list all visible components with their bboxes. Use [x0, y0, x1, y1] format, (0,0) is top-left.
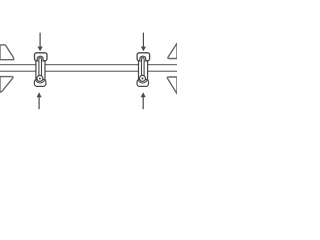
node TR: top-right wedge: [168, 43, 177, 58]
foot: [34, 79, 46, 86]
clip right assembly: [137, 53, 150, 87]
circle ring: [140, 75, 146, 81]
pin: [142, 58, 145, 76]
node BL: bottom-left wedge: [0, 77, 13, 93]
arrow top-left: [38, 33, 43, 52]
foot inner arc: [138, 80, 147, 83]
arrow bottom-left: [37, 92, 42, 109]
clip left assembly: [34, 53, 47, 87]
arrow bottom-right: [141, 92, 146, 109]
circle ring: [37, 75, 43, 81]
pin: [39, 58, 42, 76]
node TL: top-left wedge: [0, 45, 14, 60]
slot arch: [37, 56, 43, 61]
circle dot: [39, 78, 41, 80]
foot inner arc: [36, 80, 45, 83]
arrow top-right: [141, 33, 146, 52]
body: [139, 56, 148, 80]
cap: [137, 53, 150, 61]
node BR: bottom-right wedge: [167, 77, 177, 94]
foot: [137, 79, 149, 86]
wire: horizontal bar top edge: [0, 64, 177, 66]
wire: horizontal bar bottom edge: [0, 70, 177, 72]
cap: [35, 53, 48, 61]
body: [36, 56, 45, 80]
circle dot: [142, 78, 144, 80]
slot arch: [140, 56, 146, 61]
